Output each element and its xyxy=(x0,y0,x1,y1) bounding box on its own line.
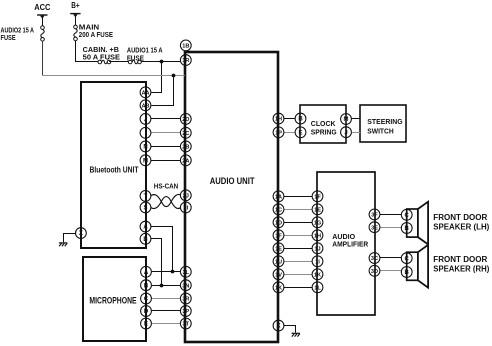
svg-text:B: B xyxy=(143,237,148,243)
connector pin 1A (audio unit) xyxy=(273,191,284,202)
connector pin B (Bluetooth audio) xyxy=(140,233,151,244)
svg-text:1R: 1R xyxy=(182,58,189,64)
junction xyxy=(160,60,164,64)
fuse F1 AUDIO2 15 A xyxy=(1,26,45,42)
wire xyxy=(64,234,77,243)
svg-text:200 A FUSE: 200 A FUSE xyxy=(79,32,113,39)
wire xyxy=(151,62,161,93)
svg-text:3R: 3R xyxy=(182,297,189,303)
svg-text:3C: 3C xyxy=(371,256,378,262)
svg-text:3T: 3T xyxy=(183,322,190,328)
connector pin 3R (audio unit) xyxy=(180,293,191,304)
svg-text:MICROPHONE: MICROPHONE xyxy=(89,295,136,305)
svg-text:C: C xyxy=(405,213,410,219)
svg-text:2C: 2C xyxy=(182,131,189,137)
svg-text:1A: 1A xyxy=(275,194,282,200)
connector pin 1G (audio amplifier) xyxy=(312,217,323,228)
wire xyxy=(352,118,361,120)
junction xyxy=(160,284,164,288)
connector pin S (Bluetooth CAN-L) xyxy=(140,202,151,213)
wire xyxy=(380,270,401,272)
connector pin B (RH speaker) xyxy=(401,267,412,278)
connector pin 3D (audio amplifier) xyxy=(369,265,380,276)
svg-text:1K: 1K xyxy=(314,272,321,278)
AUDIO AMPLIFIER box U4 xyxy=(317,172,375,315)
wire xyxy=(152,323,181,325)
wire xyxy=(284,326,296,333)
connector pin 2B (audio unit) xyxy=(180,141,191,152)
wire xyxy=(76,41,99,62)
connector pin M (clock spring) xyxy=(341,114,352,125)
fuse F4 AUDIO1 15 A xyxy=(127,48,163,64)
wire xyxy=(151,132,181,134)
connector pin 3F (audio amplifier) xyxy=(369,209,380,220)
speaker SP2 FRONT DOOR SPEAKER (RH) xyxy=(407,245,428,288)
svg-text:1F: 1F xyxy=(275,233,282,239)
svg-text:C: C xyxy=(405,256,410,262)
wire xyxy=(42,41,44,75)
wire xyxy=(284,132,295,134)
connector pin 1I (audio amplifier) xyxy=(312,256,323,267)
wire xyxy=(284,209,312,211)
connector pin AA (Bluetooth unit) xyxy=(140,87,151,98)
wire xyxy=(109,61,128,63)
connector pin 1K (audio amplifier) xyxy=(312,269,323,280)
svg-text:1P: 1P xyxy=(275,130,282,136)
svg-text:SPEAKER (RH): SPEAKER (RH) xyxy=(433,264,489,273)
wire xyxy=(352,132,361,134)
wire xyxy=(284,118,295,120)
connector pin J (clock spring) xyxy=(341,127,352,138)
connector pin 3N (audio unit) xyxy=(180,280,191,291)
connector pin 1F (audio amplifier) xyxy=(312,191,323,202)
wire xyxy=(284,274,312,276)
svg-text:1U: 1U xyxy=(275,259,282,265)
wire xyxy=(75,14,77,25)
svg-text:X: X xyxy=(276,324,280,330)
connector pin 2I (audio unit CAN-L) xyxy=(180,202,191,213)
wire xyxy=(284,287,312,289)
connector pin 1H (audio unit) xyxy=(273,113,284,124)
wire xyxy=(380,257,401,259)
svg-text:B: B xyxy=(298,117,303,123)
svg-text:2B: 2B xyxy=(182,145,189,151)
wire xyxy=(151,227,173,272)
CLOCK SPRING box U5 xyxy=(300,105,346,143)
svg-text:SPEAKER (LH): SPEAKER (LH) xyxy=(433,222,489,231)
connector pin A (microphone) xyxy=(141,266,152,277)
svg-text:2I: 2I xyxy=(183,206,188,212)
svg-text:E: E xyxy=(298,130,302,136)
svg-text:50 A FUSE: 50 A FUSE xyxy=(83,55,121,62)
connector pin 3E (audio amplifier) xyxy=(369,222,380,233)
connector pin 1E (audio amplifier) xyxy=(312,204,323,215)
connector pin 1K (audio unit) xyxy=(273,282,284,293)
svg-text:SPRING: SPRING xyxy=(311,128,337,137)
wire xyxy=(380,227,401,229)
svg-text:1V: 1V xyxy=(275,272,282,278)
connector pin 1C (audio unit) xyxy=(273,204,284,215)
svg-text:T: T xyxy=(144,194,148,200)
svg-text:1C: 1C xyxy=(275,207,282,213)
wire xyxy=(152,310,181,312)
wire xyxy=(151,239,162,286)
svg-text:3E: 3E xyxy=(371,225,378,231)
connector pin 3P (audio unit) xyxy=(180,306,191,317)
connector pin 1F (audio unit) xyxy=(273,230,284,241)
connector pin 3C (audio amplifier) xyxy=(369,253,380,264)
wire xyxy=(284,196,312,198)
svg-text:2J: 2J xyxy=(183,193,189,199)
connector pin 2C (audio unit) xyxy=(180,127,191,138)
svg-text:CLOCK: CLOCK xyxy=(311,119,336,128)
connector pin C (microphone) xyxy=(141,293,152,304)
svg-text:SWITCH: SWITCH xyxy=(367,126,393,135)
junction xyxy=(171,270,175,274)
fuse F3 CABIN. +B 50 A xyxy=(83,47,121,64)
wire xyxy=(151,160,181,162)
power feed B+ xyxy=(70,1,80,17)
wire xyxy=(141,61,181,63)
svg-text:CABIN. +B: CABIN. +B xyxy=(83,47,119,54)
wire xyxy=(284,248,312,250)
connector pin J (Bluetooth unit) xyxy=(140,114,151,125)
Bluetooth UNIT box U2 xyxy=(81,82,146,248)
svg-text:FUSE: FUSE xyxy=(1,35,16,42)
connector pin 2D (audio unit) xyxy=(180,114,191,125)
svg-text:3P: 3P xyxy=(182,309,189,315)
svg-text:2A: 2A xyxy=(182,158,189,164)
connector pin 3T (audio unit) xyxy=(180,318,191,329)
HS-CAN twisted pair wires xyxy=(151,194,181,208)
svg-text:C: C xyxy=(144,297,149,303)
svg-text:S: S xyxy=(143,206,147,212)
connector pin 1H (audio amplifier) xyxy=(312,230,323,241)
svg-text:1L: 1L xyxy=(314,285,321,291)
svg-text:A: A xyxy=(144,270,149,276)
svg-text:1E: 1E xyxy=(314,207,321,213)
svg-text:1H: 1H xyxy=(314,233,321,239)
svg-text:HS-CAN: HS-CAN xyxy=(154,182,178,191)
svg-text:A: A xyxy=(143,225,148,231)
connector pin 1E (audio unit) xyxy=(273,243,284,254)
svg-text:B: B xyxy=(405,270,410,276)
connector pin 1V (audio unit) xyxy=(273,269,284,280)
svg-text:J: J xyxy=(144,117,147,123)
connector pin B (microphone) xyxy=(141,280,152,291)
svg-text:1F: 1F xyxy=(314,194,321,200)
connector pin C (LH speaker) xyxy=(401,209,412,220)
svg-text:FRONT DOOR: FRONT DOOR xyxy=(433,255,487,264)
STEERING SWITCH box S1 xyxy=(360,105,406,142)
connector pin N (Bluetooth unit) xyxy=(140,141,151,152)
svg-text:1B: 1B xyxy=(182,44,189,50)
connector pin B (LH speaker) xyxy=(401,223,412,234)
connector pin E (clock spring) xyxy=(295,127,306,138)
fuse F2 MAIN 200 A xyxy=(74,25,114,41)
ground G1 xyxy=(59,243,67,246)
svg-text:FRONT DOOR: FRONT DOOR xyxy=(433,213,487,222)
wire xyxy=(284,261,312,263)
wire xyxy=(42,16,44,26)
svg-text:STEERING: STEERING xyxy=(367,117,403,126)
svg-text:1H: 1H xyxy=(275,117,282,123)
svg-text:X: X xyxy=(79,231,83,237)
svg-text:B: B xyxy=(144,283,149,289)
svg-text:AMPLIFIER: AMPLIFIER xyxy=(332,240,369,249)
svg-text:2D: 2D xyxy=(182,117,189,123)
junction xyxy=(172,74,176,78)
svg-text:AUDIO UNIT: AUDIO UNIT xyxy=(210,176,255,187)
svg-text:J: J xyxy=(344,130,347,136)
svg-text:N: N xyxy=(143,145,147,151)
MICROPHONE box U3 xyxy=(83,257,146,341)
connector pin X (Bluetooth ground) xyxy=(76,228,87,239)
connector pin 1R (audio unit) xyxy=(180,55,191,66)
wire xyxy=(152,298,181,300)
wire xyxy=(152,271,181,273)
wire xyxy=(380,214,401,216)
connector pin M (Bluetooth unit) xyxy=(140,155,151,166)
svg-text:1K: 1K xyxy=(275,285,282,291)
svg-text:AA: AA xyxy=(142,90,150,96)
connector pin 3L (audio unit) xyxy=(180,266,191,277)
connector pin 1U (audio unit) xyxy=(273,256,284,267)
connector pin A (Bluetooth audio) xyxy=(140,221,151,232)
svg-text:MAIN: MAIN xyxy=(79,25,99,32)
svg-text:1E: 1E xyxy=(275,246,282,252)
connector pin 1L (audio amplifier) xyxy=(312,282,323,293)
svg-text:3L: 3L xyxy=(183,270,190,276)
svg-text:ACC: ACC xyxy=(34,3,50,12)
wire xyxy=(151,146,181,148)
connector pin 1B (audio unit) xyxy=(180,40,191,51)
connector pin D (microphone) xyxy=(141,306,152,317)
svg-text:1G: 1G xyxy=(314,220,321,226)
svg-text:M: M xyxy=(143,158,148,164)
connector pin I (Bluetooth unit) xyxy=(140,127,151,138)
svg-text:D: D xyxy=(144,309,149,315)
svg-text:AUDIO2 15 A: AUDIO2 15 A xyxy=(1,27,35,34)
svg-text:M: M xyxy=(344,117,349,123)
wire xyxy=(43,75,185,77)
connector pin 1J (audio amplifier) xyxy=(312,243,323,254)
wire xyxy=(284,222,312,224)
svg-text:E: E xyxy=(144,322,148,328)
connector pin 1P (audio unit) xyxy=(273,127,284,138)
connector pin E (microphone) xyxy=(141,318,152,329)
svg-text:B: B xyxy=(405,226,410,232)
svg-text:1I: 1I xyxy=(315,259,320,265)
connector pin X (audio unit ground) xyxy=(273,320,284,331)
svg-text:3F: 3F xyxy=(371,213,378,219)
connector pin 1D (audio unit) xyxy=(273,217,284,228)
power feed ACC xyxy=(34,3,50,19)
svg-text:1J: 1J xyxy=(314,246,320,252)
wire xyxy=(151,118,181,120)
connector pin 2A (audio unit) xyxy=(180,155,191,166)
ground G2 xyxy=(292,333,300,336)
svg-text:Bluetooth UNIT: Bluetooth UNIT xyxy=(90,165,139,174)
svg-text:B+: B+ xyxy=(71,1,80,10)
AUDIO UNIT box U1 xyxy=(185,52,278,342)
wire xyxy=(151,76,173,106)
svg-text:3D: 3D xyxy=(371,269,378,275)
svg-text:1D: 1D xyxy=(275,220,282,226)
connector pin C (RH speaker) xyxy=(401,253,412,264)
connector pin 2J (audio unit CAN-H) xyxy=(180,190,191,201)
connector pin B (clock spring) xyxy=(295,113,306,124)
svg-text:AUDIO1 15 A: AUDIO1 15 A xyxy=(127,48,163,55)
connector pin T (Bluetooth CAN-H) xyxy=(140,191,151,202)
connector pin AB (Bluetooth unit) xyxy=(140,100,151,111)
svg-text:AB: AB xyxy=(142,103,150,109)
svg-text:3N: 3N xyxy=(182,283,189,289)
speaker SP1 FRONT DOOR SPEAKER (LH) xyxy=(407,202,428,245)
wire xyxy=(152,285,181,287)
wire xyxy=(284,235,312,237)
